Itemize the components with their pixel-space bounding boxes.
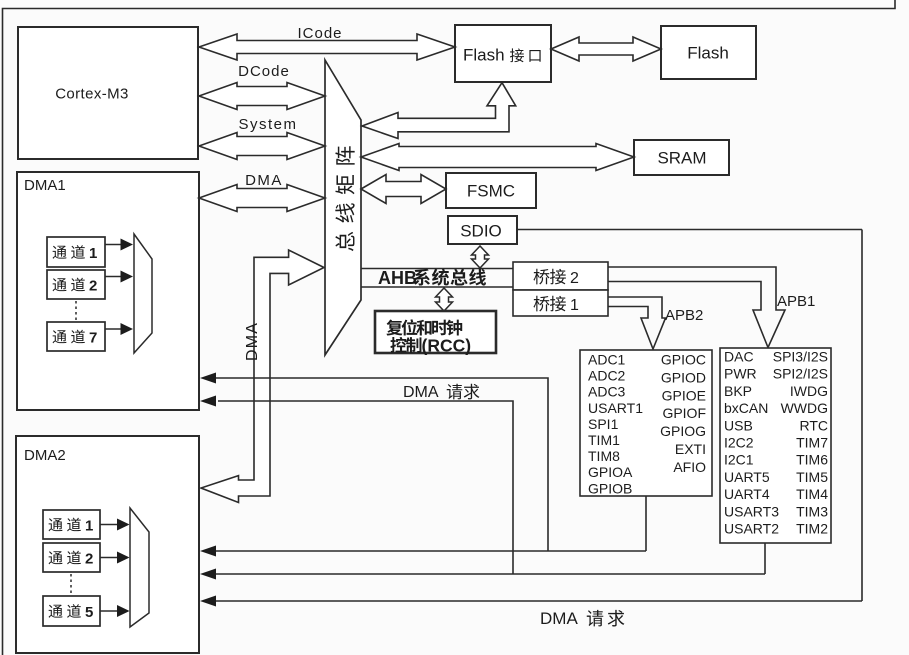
svg-text:Flash: Flash xyxy=(687,44,729,63)
svg-text:ICode: ICode xyxy=(297,25,342,42)
svg-text:UART5: UART5 xyxy=(724,469,770,485)
svg-text:TIM5: TIM5 xyxy=(796,469,828,485)
svg-text:1: 1 xyxy=(85,517,93,534)
svg-text:FSMC: FSMC xyxy=(467,182,515,201)
svg-text:GPIOG: GPIOG xyxy=(660,423,706,439)
svg-text:bxCAN: bxCAN xyxy=(724,400,768,416)
svg-text:TIM8: TIM8 xyxy=(588,448,620,464)
svg-text:2: 2 xyxy=(570,270,579,287)
svg-text:GPIOF: GPIOF xyxy=(662,405,706,421)
svg-text:GPIOA: GPIOA xyxy=(588,464,633,480)
svg-text:APB1: APB1 xyxy=(777,293,815,310)
svg-text:TIM1: TIM1 xyxy=(588,432,620,448)
svg-text:TIM7: TIM7 xyxy=(796,435,828,451)
svg-text:IWDG: IWDG xyxy=(790,383,828,399)
svg-text:DMA: DMA xyxy=(244,322,261,361)
svg-text:TIM3: TIM3 xyxy=(796,503,828,519)
svg-text:DMA: DMA xyxy=(245,172,283,189)
svg-text:USB: USB xyxy=(724,417,753,433)
svg-text:2: 2 xyxy=(89,277,97,294)
svg-text:SPI3/I2S: SPI3/I2S xyxy=(773,349,828,365)
svg-text:USART3: USART3 xyxy=(724,503,779,519)
svg-text:2: 2 xyxy=(85,550,93,567)
svg-text:ADC2: ADC2 xyxy=(588,368,626,384)
svg-text:UART4: UART4 xyxy=(724,486,770,502)
svg-text:PWR: PWR xyxy=(724,366,757,382)
svg-text:DMA2: DMA2 xyxy=(24,447,66,464)
svg-text:SPI2/I2S: SPI2/I2S xyxy=(773,366,828,382)
svg-text:ADC1: ADC1 xyxy=(588,352,626,368)
svg-text:USART1: USART1 xyxy=(588,400,643,416)
svg-text:APB2: APB2 xyxy=(665,307,703,324)
svg-text:TIM6: TIM6 xyxy=(796,452,828,468)
svg-text:GPIOE: GPIOE xyxy=(662,387,706,403)
svg-text:SRAM: SRAM xyxy=(657,149,706,168)
svg-text:ADC3: ADC3 xyxy=(588,384,626,400)
svg-text:I2C1: I2C1 xyxy=(724,452,754,468)
svg-text:DMA: DMA xyxy=(403,384,439,401)
svg-text:(RCC): (RCC) xyxy=(422,336,472,356)
svg-text:TIM2: TIM2 xyxy=(796,521,828,537)
svg-text:WWDG: WWDG xyxy=(781,400,828,416)
svg-text:I2C2: I2C2 xyxy=(724,435,754,451)
svg-text:GPIOB: GPIOB xyxy=(588,480,632,496)
svg-text:USART2: USART2 xyxy=(724,521,779,537)
svg-text:GPIOD: GPIOD xyxy=(661,369,706,385)
svg-text:AHB: AHB xyxy=(378,268,417,288)
svg-text:1: 1 xyxy=(89,245,97,262)
svg-text:EXTI: EXTI xyxy=(675,441,706,457)
svg-text:Cortex-M3: Cortex-M3 xyxy=(55,86,129,103)
svg-text:DCode: DCode xyxy=(238,63,290,80)
svg-text:System: System xyxy=(238,116,297,133)
svg-text:1: 1 xyxy=(570,297,579,314)
svg-text:SDIO: SDIO xyxy=(460,222,502,241)
svg-text:DMA: DMA xyxy=(540,609,578,628)
svg-text:AFIO: AFIO xyxy=(673,459,706,475)
svg-text:TIM4: TIM4 xyxy=(796,486,828,502)
svg-text:SPI1: SPI1 xyxy=(588,416,619,432)
svg-text:GPIOC: GPIOC xyxy=(661,352,706,368)
svg-text:7: 7 xyxy=(89,329,97,346)
svg-text:5: 5 xyxy=(85,604,93,621)
svg-text:DMA1: DMA1 xyxy=(24,177,66,194)
svg-text:RTC: RTC xyxy=(799,417,828,433)
svg-text:Flash: Flash xyxy=(463,46,505,65)
svg-text:BKP: BKP xyxy=(724,383,752,399)
svg-text:DAC: DAC xyxy=(724,349,754,365)
